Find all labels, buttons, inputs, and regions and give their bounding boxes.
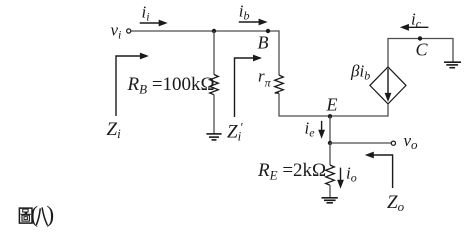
- svg-text:Zi′: Zi′: [227, 120, 243, 144]
- resistor RB zigzag: [210, 75, 219, 95]
- svg-text:ii: ii: [142, 3, 150, 24]
- ground under RB: [206, 134, 221, 140]
- impedance arrow Z_i: [116, 53, 149, 116]
- ground top right at C: [444, 62, 461, 67]
- node C junction dot: [418, 36, 422, 40]
- svg-text:Zo: Zo: [387, 192, 405, 214]
- resistor r_pi zigzag: [275, 75, 284, 93]
- current arrow i_b: [239, 19, 268, 26]
- current arrow i_o: [337, 168, 344, 189]
- wire RE bottom to ground: [329, 185, 331, 197]
- svg-text:vi: vi: [111, 21, 122, 42]
- terminal v_i open circle: [127, 29, 131, 33]
- wire top main v_i to B corner: [131, 30, 279, 32]
- caption figure eight: CJK 圖 drawn as strokes: [19, 208, 32, 223]
- wire r_pi bottom to E horizontal: [279, 93, 388, 116]
- resistor RE zigzag: [326, 165, 335, 185]
- wire E down to vo junction: [329, 116, 331, 143]
- wire vo junction down to RE: [329, 143, 331, 165]
- wire to v_o terminal: [330, 142, 391, 144]
- svg-text:RB =100kΩ: RB =100kΩ: [127, 74, 215, 97]
- svg-text:E: E: [326, 95, 338, 115]
- caption CJK 八 drawn as strokes: [37, 208, 48, 225]
- svg-text:ie: ie: [305, 118, 316, 139]
- wire B corner vertical to r_pi: [278, 30, 280, 75]
- svg-text:rπ: rπ: [258, 67, 272, 90]
- svg-text:Zi: Zi: [107, 119, 122, 141]
- svg-text:ic: ic: [411, 10, 422, 31]
- current arrow i_c: [400, 24, 429, 31]
- impedance arrow Z_i_prime: [235, 55, 263, 117]
- svg-text:io: io: [346, 164, 357, 185]
- wire RB vertical top: [213, 31, 215, 75]
- svg-text:): ): [47, 202, 55, 227]
- dependent current source beta i_b diamond: [370, 67, 406, 104]
- svg-text:RE =2kΩ: RE =2kΩ: [257, 160, 326, 183]
- current arrow i_i: [140, 20, 168, 27]
- terminal v_o open circle: [391, 141, 395, 145]
- svg-text:ib: ib: [239, 2, 250, 23]
- ground under RE: [322, 198, 338, 203]
- node junction dot vo branch: [328, 141, 332, 145]
- svg-text:C: C: [416, 40, 429, 60]
- wire diamond bottom to E wire: [387, 104, 389, 117]
- node B junction dot: [266, 29, 270, 33]
- current source internal arrow: [385, 69, 392, 102]
- node E junction dot: [328, 114, 332, 118]
- wire RB vertical bottom: [213, 95, 215, 134]
- svg-text:vo: vo: [404, 131, 419, 152]
- node junction dot at RB top: [212, 29, 216, 33]
- current arrow i_e: [318, 121, 325, 139]
- impedance arrow Z_o: [365, 152, 393, 188]
- svg-text:B: B: [258, 33, 269, 53]
- svg-text:βib: βib: [350, 62, 370, 83]
- wire diamond top to C wire and down to ground: [388, 39, 453, 67]
